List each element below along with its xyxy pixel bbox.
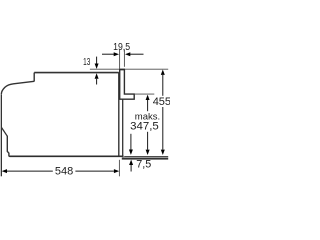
shelf top line [124, 156, 168, 158]
455 top up arrow [161, 70, 165, 75]
door front face line [0, 94, 2, 176]
door top curve and control panel slope [1, 81, 34, 94]
appliance top line [34, 72, 119, 74]
7,5 down arrow [130, 134, 132, 150]
svg-text:347,5: 347,5 [130, 120, 159, 132]
appliance front lower edge [7, 136, 10, 157]
19,5 extension line left [119, 50, 121, 69]
19,5 extension line right [123, 50, 125, 67]
shelf board (section) [122, 158, 168, 160]
svg-text:455: 455 [153, 96, 170, 108]
455 lower shaft and down arrow [162, 107, 164, 150]
svg-text:7,5: 7,5 [136, 159, 151, 171]
svg-text:19,5: 19,5 [113, 42, 130, 53]
svg-text:548: 548 [55, 166, 73, 178]
13 dimension up arrow [95, 73, 99, 79]
control panel step [33, 73, 35, 82]
appliance bottom line [10, 155, 124, 157]
maks 347,5 lower shaft and down arrow [147, 132, 149, 150]
rail top edge [119, 69, 125, 71]
wall mounting rail [120, 69, 135, 99]
wall line below rail hook [122, 99, 124, 157]
svg-text:13: 13 [83, 57, 90, 68]
13 dimension down arrow [96, 57, 98, 64]
548 dimension line left with arrow [2, 169, 7, 173]
548 right extension line [118, 160, 120, 177]
7,5 up arrow [129, 160, 133, 165]
maks 347,5 top up arrow [146, 95, 150, 100]
19,5 dimension left arrow [102, 53, 115, 55]
door lower diagonal [2, 128, 8, 137]
548 dimension line right with arrow [75, 170, 114, 172]
hook top reference line (maks 347,5 top) [134, 93, 154, 95]
19,5 dimension right arrow [129, 53, 143, 55]
appliance back line [118, 72, 120, 156]
niche reference line (top, y=69) [90, 68, 168, 70]
